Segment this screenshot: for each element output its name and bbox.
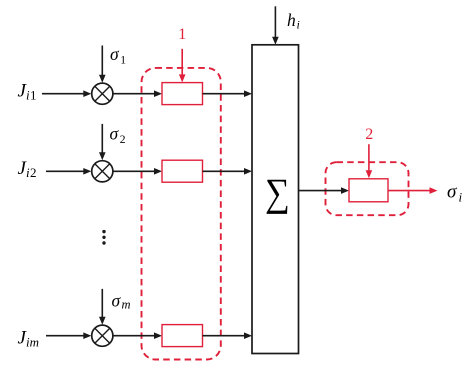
- sigma_1 arrow into M1: [99, 46, 106, 83]
- svg-text:2: 2: [30, 165, 37, 180]
- sigma_2 arrow into M2: [99, 124, 106, 160]
- sigma_2 label: [110, 123, 126, 146]
- svg-text:1: 1: [178, 26, 186, 43]
- multiplier M2: [92, 161, 113, 182]
- vertical dots between rows: [102, 230, 105, 245]
- red arrow into box F1: [179, 49, 186, 83]
- label 2 (red): [365, 126, 373, 143]
- svg-text:σ: σ: [112, 291, 122, 311]
- svg-text:σ: σ: [447, 182, 457, 203]
- sigma_m label: [112, 291, 131, 312]
- wire F1a to sum: [203, 90, 253, 97]
- dashed group box 1: [142, 68, 221, 360]
- wire M1 to box F1a: [113, 90, 162, 97]
- wire M2 to box F1b: [113, 168, 162, 175]
- svg-text:2: 2: [120, 134, 126, 146]
- h_i arrow into sum: [272, 6, 279, 45]
- red arrow into box F2: [366, 144, 373, 178]
- wire Jim to multiplier M3: [46, 332, 91, 339]
- wire M3 to box F1c: [113, 332, 162, 339]
- multiplier M1: [92, 83, 113, 104]
- svg-text:σ: σ: [110, 44, 120, 64]
- h_i label: [287, 10, 300, 32]
- wire sum to box F2: [299, 187, 350, 194]
- output label sigma_i: [447, 182, 463, 205]
- input label Ji2: [18, 158, 37, 180]
- svg-text:h: h: [287, 10, 296, 30]
- dashed group box 2: [326, 162, 409, 215]
- label 1 (red): [178, 26, 186, 43]
- svg-text:m: m: [122, 298, 131, 312]
- svg-text:im: im: [26, 335, 39, 350]
- wire Ji2 to multiplier M2: [46, 168, 91, 175]
- svg-text:σ: σ: [110, 123, 120, 143]
- wire F1b to sum: [203, 168, 253, 175]
- svg-text:∑: ∑: [265, 171, 290, 215]
- box F1c (red): [162, 325, 203, 347]
- input label Jim: [18, 328, 40, 350]
- svg-text:2: 2: [365, 126, 373, 143]
- svg-text:1: 1: [120, 54, 126, 66]
- box F1a (red): [162, 83, 203, 105]
- wire Ji1 to multiplier M1: [42, 90, 91, 97]
- sigma_1 label: [110, 44, 126, 66]
- box F1b (red): [162, 160, 203, 182]
- wire F1c to sum: [203, 332, 253, 339]
- svg-text:i: i: [459, 190, 463, 205]
- red output arrow to sigma_i: [388, 187, 438, 194]
- multiplier M3: [92, 325, 113, 346]
- summation block U1: [252, 45, 299, 354]
- svg-text:i: i: [297, 18, 300, 32]
- svg-text:1: 1: [30, 88, 37, 103]
- sigma_m arrow into M3: [99, 289, 106, 325]
- box F2 (red): [349, 179, 388, 202]
- input label Ji1: [18, 81, 37, 103]
